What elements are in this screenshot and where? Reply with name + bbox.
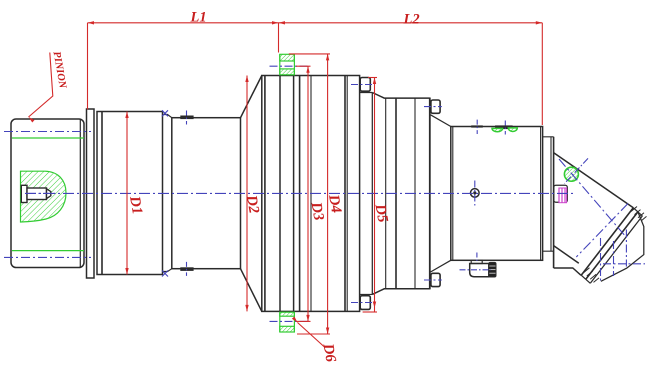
bottom right vertical center line 1: [600, 238, 602, 282]
bottom stud nut: [280, 326, 295, 332]
magenta connector outline: [554, 185, 568, 202]
vent plug vertical: [476, 120, 478, 134]
pinion pitch line top: [12, 137, 84, 139]
housing cylinder 1 (D1 section): [97, 112, 163, 275]
B1 top bolt center line: [351, 84, 375, 86]
knurl ticks top end of plates: [631, 207, 647, 221]
L1 left arrow: [88, 21, 95, 24]
port axis slant: [565, 158, 589, 183]
D3 dimension line: [307, 66, 309, 321]
bend joint plate: [543, 137, 554, 251]
D3 extension bottom: [296, 320, 311, 322]
seal plug vertical: [504, 121, 506, 135]
casing corner bracket: [601, 212, 644, 281]
svg-text:D1: D1: [126, 194, 145, 216]
bent axis center line: [559, 159, 627, 238]
casing foot under joint: [554, 268, 581, 275]
svg-text:L1: L1: [190, 10, 207, 26]
L1/L2 middle arrows: [272, 21, 279, 24]
motor body: [451, 127, 543, 261]
small plug on cyl2 bottom: [181, 268, 194, 271]
pinion inner right edge: [79, 120, 81, 268]
seal lobes on motor top: [492, 128, 503, 131]
D6 leader arrow: [292, 317, 299, 324]
flange block outline: [262, 76, 360, 312]
D5 dimension line: [374, 78, 376, 313]
D1 arrows: [125, 112, 128, 119]
housing2 right face: [429, 98, 431, 290]
cyl2 plug center line top: [186, 111, 188, 125]
D4 dimension line: [327, 54, 329, 334]
bolt B2 top head: [431, 100, 440, 113]
D1 dimension line: [126, 112, 128, 275]
pinion pitch center line bottom: [4, 256, 91, 258]
PINION leader: [29, 53, 53, 118]
D6 leader: [298, 323, 326, 348]
D5 extension bottom: [363, 311, 377, 313]
shaft end bolt washer: [21, 185, 27, 202]
drain plug vertical tick: [476, 253, 478, 263]
extension line right: [541, 23, 543, 125]
cone taper upper: [241, 76, 262, 118]
B2 top bolt center line: [424, 106, 442, 108]
small plug on cyl2 top: [181, 116, 194, 119]
svg-text:L2: L2: [403, 12, 420, 28]
motor flange cone upper: [431, 115, 451, 127]
port plug circle on bent housing: [564, 167, 578, 181]
valve plate 1: [581, 208, 638, 279]
drain plug body: [470, 264, 489, 277]
cyl2 plug center line bottom: [186, 262, 188, 276]
step face right of flange top: [360, 76, 373, 93]
extension line left: [87, 23, 89, 110]
housing cylinder 2: [172, 118, 241, 269]
extension line middle: [278, 23, 280, 53]
D4 arrows: [326, 54, 329, 61]
bolt B2 bottom head: [431, 273, 440, 286]
main center line: [25, 192, 576, 194]
bolt B1 bottom head: [360, 296, 370, 310]
flange verticals: [264, 76, 266, 312]
motor body right inner line: [540, 127, 542, 261]
drain plug tab: [471, 260, 482, 263]
motor flange cone lower: [431, 260, 451, 272]
valve plate center line: [576, 204, 628, 258]
step between cyl1 and cyl2 top: [163, 115, 172, 118]
D3 arrows: [306, 66, 309, 73]
magenta connector hatch: [559, 188, 567, 203]
bent housing upper edge: [554, 153, 634, 208]
bottom stud sides: [280, 312, 295, 332]
valve plate 2: [586, 212, 643, 283]
step between cyl1 and cyl2 bottom: [163, 269, 172, 272]
housing2 body: [372, 93, 430, 99]
top stud sides: [280, 54, 295, 75]
bottom stud washer: [280, 312, 295, 316]
B1 bottom bolt center line: [351, 302, 375, 304]
center mark vertical: [474, 181, 476, 206]
top stud center line: [270, 65, 309, 67]
thread ticks on green port plug: [566, 167, 575, 174]
pinion tooth section: [21, 171, 67, 222]
D5 arrows: [373, 78, 376, 85]
bottom right vertical center line 1b: [613, 241, 615, 276]
drain plug knurled cap: [489, 262, 496, 277]
housing2 left face ring: [371, 93, 373, 295]
motor body left inner line: [452, 127, 454, 261]
end plate: [87, 109, 95, 278]
svg-text:D5: D5: [371, 202, 390, 224]
L2 right arrow: [536, 21, 543, 24]
cone taper lower: [241, 269, 262, 312]
motor center mark circle: [471, 189, 480, 198]
PINION leader arrow: [27, 116, 34, 123]
bottom right horizontal center line: [603, 263, 645, 265]
bolt B1 top head: [360, 78, 370, 92]
D4 extension top: [289, 53, 330, 55]
step face right of flange bottom: [360, 294, 373, 311]
svg-text:PINION: PINION: [51, 51, 68, 90]
bent housing lower edge: [554, 246, 579, 264]
shaft end bolt drawn over hatch: [21, 185, 51, 202]
drain plug axis horizontal: [460, 269, 492, 271]
shaft end bolt tip: [47, 189, 51, 199]
svg-text:D2: D2: [243, 193, 262, 215]
svg-text:D3: D3: [307, 200, 326, 222]
black bar of seal plug on body top: [495, 126, 512, 129]
svg-text:D6: D6: [319, 341, 338, 363]
B2 bottom bolt center line: [424, 279, 442, 281]
D3 extension top: [296, 65, 311, 67]
drain plug cap stripes: [489, 266, 495, 273]
D2 arrows: [245, 76, 248, 83]
arrowheads: [27, 21, 542, 334]
dimension line L1: [88, 22, 279, 24]
corner mark X bottom: [162, 271, 168, 277]
corner mark X top: [162, 110, 168, 116]
D4 extension bottom: [297, 333, 330, 335]
top stud washer: [280, 69, 295, 75]
pinion body: [11, 119, 84, 268]
cylinder 1 inner edge line: [101, 112, 103, 275]
shaft end bolt shank: [27, 188, 47, 200]
bottom stud center line: [270, 320, 309, 322]
D2 dimension line: [246, 76, 248, 312]
shaft bolt center line: [28, 192, 58, 194]
dimension line L2: [279, 22, 543, 24]
bottom right vertical center line 2: [625, 230, 627, 267]
pinion pitch center line top: [4, 131, 91, 133]
pinion pitch line bottom: [12, 250, 84, 252]
svg-text:D4: D4: [325, 192, 344, 214]
vent plug cross on body top: [471, 125, 483, 127]
top stud nut: [280, 54, 295, 61]
D5 extension top: [368, 77, 377, 79]
knurl ticks bottom end of plates: [584, 268, 600, 283]
